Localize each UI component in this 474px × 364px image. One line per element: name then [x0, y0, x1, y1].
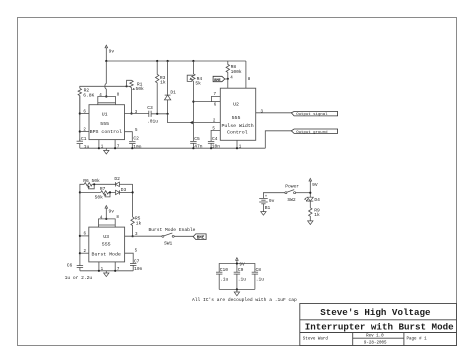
- switch SW1: [149, 227, 196, 246]
- wire U3 pin2 stub: [80, 252, 89, 254]
- svg-text:SW1: SW1: [164, 240, 173, 246]
- ground symbol B1: [261, 212, 266, 216]
- resistor R3 1k: [156, 61, 166, 114]
- capacitor C7 10n: [130, 258, 143, 272]
- svg-text:50k: 50k: [136, 86, 145, 92]
- 9V supply arrow power: [309, 178, 318, 197]
- node U1 pin7 on rail: [114, 147, 116, 149]
- svg-text:Rev 1.0: Rev 1.0: [366, 335, 384, 339]
- node R7 right: [109, 191, 111, 193]
- svg-text:555: 555: [102, 241, 111, 247]
- net tag BME at SW1: [193, 234, 206, 241]
- capacitor C1 1u: [77, 136, 90, 150]
- svg-text:Output ground: Output ground: [296, 130, 328, 135]
- svg-text:5k: 5k: [195, 80, 201, 86]
- node rail-D1: [167, 60, 169, 62]
- ground symbol R9: [308, 221, 313, 225]
- switch SW2 Power: [285, 184, 299, 203]
- capacitor C9 .1u: [234, 267, 247, 289]
- capacitor C10 .1u: [216, 267, 229, 289]
- node R8 pin4: [227, 78, 229, 80]
- net tag BME at U2 pin4: [213, 76, 228, 83]
- wire decoupling top rail: [219, 264, 255, 273]
- node R1 bottom on pin3 wire: [130, 112, 132, 114]
- capacitor C6: [65, 262, 93, 281]
- wire U1 pin2 stub: [80, 131, 89, 133]
- node U1 pin1 on rail: [98, 147, 100, 149]
- wire U1 pin3 stub: [125, 113, 149, 115]
- battery B1 9v: [259, 193, 285, 212]
- wire U3 pin6 stub: [80, 235, 89, 237]
- wire U2 pin3 out: [256, 112, 292, 114]
- wire U2 pin1 drop: [236, 140, 238, 148]
- svg-text:R6 50k: R6 50k: [83, 178, 100, 184]
- svg-text:D3: D3: [121, 187, 127, 193]
- resistor R8 100k: [226, 61, 242, 79]
- node U1 vcc: [105, 95, 107, 97]
- ground symbol U3: [104, 271, 109, 277]
- svg-text:.1u: .1u: [238, 276, 247, 282]
- 9V supply arrow caps: [236, 258, 245, 273]
- svg-text:C6: C6: [67, 262, 73, 268]
- wire decoupling bottom rail: [219, 288, 255, 290]
- resistor R5 1k: [131, 216, 142, 237]
- wire D1 node to U2 pin2: [168, 114, 221, 123]
- diode D2: [114, 176, 132, 186]
- wire U3 pin5 to C7: [125, 253, 134, 263]
- wire U3 pin3 out: [125, 235, 162, 237]
- wire U3 pin7 drop: [114, 262, 116, 271]
- ground rail bottom: [80, 147, 265, 149]
- wire U1 pin5 to C2: [125, 132, 133, 141]
- svg-text:9V: 9V: [312, 182, 318, 188]
- diode D3: [116, 187, 133, 195]
- svg-text:555: 555: [100, 121, 109, 127]
- diode D1: [164, 61, 176, 114]
- svg-text:BME: BME: [197, 237, 205, 241]
- node C4 on rail: [210, 147, 212, 149]
- svg-text:D2: D2: [114, 176, 120, 182]
- node U3 pin7 on rail: [114, 270, 116, 272]
- svg-text:9v: 9v: [109, 209, 115, 215]
- svg-text:B1: B1: [265, 205, 271, 211]
- wire U2 pin5 to C4: [211, 130, 220, 141]
- svg-text:47n: 47n: [194, 144, 203, 150]
- svg-text:Pulse Width: Pulse Width: [221, 123, 253, 129]
- wire output ground: [265, 131, 291, 148]
- svg-text:10n: 10n: [212, 144, 221, 150]
- node C3-R3: [156, 113, 158, 115]
- node U3 pin2 left: [79, 252, 81, 254]
- wire R7 row: [80, 191, 101, 193]
- svg-text:Page # 1: Page # 1: [407, 338, 428, 342]
- svg-text:9V: 9V: [239, 262, 245, 268]
- node C9 top: [236, 262, 238, 264]
- op IC U1 555 BPS control: [89, 94, 125, 140]
- svg-text:1k: 1k: [136, 221, 142, 227]
- wire R4 to pins 6/7 loop: [193, 96, 220, 101]
- capacitor C2 10n: [129, 135, 142, 150]
- op IC U2 555 Pulse Width Control: [220, 88, 255, 140]
- svg-text:1k: 1k: [314, 212, 320, 218]
- node rail-R3: [156, 60, 158, 62]
- svg-text:C2: C2: [133, 135, 139, 141]
- svg-text:BME: BME: [214, 79, 221, 83]
- wire SW2 to LED node: [296, 192, 311, 194]
- node U2 pin1 on rail: [236, 147, 238, 149]
- wire pin8 drop: [245, 61, 247, 88]
- wire pin4 drop: [227, 79, 229, 88]
- svg-text:U3: U3: [103, 234, 109, 240]
- net tag Output ground: [291, 129, 337, 135]
- svg-text:9v: 9v: [269, 198, 275, 204]
- node R5 bottom: [132, 235, 134, 237]
- R4 wiper arrowhead on pin2 wire: [190, 121, 193, 124]
- svg-text:1k: 1k: [160, 79, 166, 85]
- node R7 left: [79, 191, 81, 193]
- potentiometer R7 50k: [95, 186, 116, 201]
- svg-text:BPS control: BPS control: [90, 129, 122, 135]
- svg-text:U2: U2: [233, 101, 239, 107]
- svg-text:C9: C9: [238, 267, 244, 273]
- wire SW1 to BME: [174, 235, 193, 237]
- resistor R9 1k: [309, 208, 320, 221]
- svg-text:R7: R7: [100, 186, 106, 192]
- title block frame: [300, 304, 457, 346]
- svg-text:All IC's are decoupled with a: All IC's are decoupled with a .1uF cap: [192, 297, 297, 303]
- svg-text:10n: 10n: [133, 144, 142, 150]
- svg-text:Steve's High Voltage: Steve's High Voltage: [320, 307, 431, 318]
- 9V supply arrow top: [105, 45, 114, 61]
- svg-text:.01u: .01u: [147, 119, 158, 125]
- node R1 top: [126, 85, 128, 87]
- node R6 right: [93, 183, 95, 185]
- svg-text:C1: C1: [81, 136, 87, 142]
- wire U1 pin6 stub: [80, 113, 89, 115]
- svg-text:Steve Ward: Steve Ward: [303, 337, 329, 342]
- node D3 right: [132, 191, 134, 193]
- ground rail U3: [80, 270, 133, 272]
- potentiometer R6 50k: [83, 178, 115, 189]
- svg-text:1u or 2.2u: 1u or 2.2u: [65, 275, 93, 281]
- wire R2/R1 branch: [80, 86, 127, 88]
- svg-text:C7: C7: [134, 258, 140, 264]
- svg-text:.1u: .1u: [256, 276, 265, 282]
- svg-text:Burst Mode: Burst Mode: [92, 252, 121, 258]
- node C5 on rail: [192, 147, 194, 149]
- svg-text:100k: 100k: [231, 69, 242, 75]
- svg-text:Control: Control: [227, 129, 248, 135]
- svg-text:C3: C3: [147, 105, 153, 111]
- svg-text:1u: 1u: [84, 144, 90, 150]
- svg-text:10n: 10n: [134, 266, 143, 272]
- LED D4: [305, 197, 321, 208]
- wire U3 pin1 drop: [98, 262, 100, 271]
- node C3-D1: [167, 113, 169, 115]
- node R4 wiper junction: [192, 101, 194, 103]
- svg-text:Power: Power: [285, 184, 299, 190]
- node LED top: [309, 192, 311, 194]
- svg-text:Interrupter with Burst Mode: Interrupter with Burst Mode: [305, 321, 454, 332]
- svg-text:U1: U1: [102, 112, 108, 118]
- svg-text:D1: D1: [170, 89, 176, 95]
- svg-text:Output signal: Output signal: [296, 112, 328, 117]
- wire 9V top rail: [106, 60, 246, 62]
- ground symbol caps: [234, 289, 239, 295]
- op IC U3 555 Burst Mode: [89, 216, 125, 262]
- wire U1 pin1 drop: [98, 140, 100, 149]
- wire right vertical to R5: [132, 184, 134, 217]
- svg-text:.1u: .1u: [220, 276, 229, 282]
- svg-text:SW2: SW2: [287, 197, 296, 203]
- node pin2 left: [79, 130, 81, 132]
- svg-text:C4: C4: [212, 136, 218, 142]
- node U3 vcc: [105, 218, 107, 220]
- net tag Output signal: [291, 112, 337, 118]
- svg-text:D4: D4: [314, 197, 320, 203]
- capacitor C4 10n: [208, 136, 220, 150]
- svg-text:9v: 9v: [109, 48, 115, 54]
- capacitor C3 .01u: [147, 105, 168, 125]
- svg-text:6.8K: 6.8K: [83, 93, 94, 99]
- capacitor C5 47n: [190, 123, 203, 150]
- svg-text:Burst Mode Enable: Burst Mode Enable: [149, 227, 196, 233]
- svg-text:R2: R2: [84, 87, 90, 93]
- wire left vertical burst: [80, 184, 84, 265]
- wire 9V drop to U1 with hop: [105, 61, 106, 97]
- wire U1 pin7 drop: [114, 140, 116, 149]
- wire left rail down to C1: [79, 96, 81, 142]
- node C2 on rail: [131, 147, 133, 149]
- node rail-R4: [192, 60, 194, 62]
- capacitor C8 .1u: [252, 267, 265, 289]
- svg-text:50k: 50k: [95, 195, 104, 201]
- 9V supply arrow U3: [105, 206, 114, 219]
- node rail-left: [105, 60, 107, 62]
- svg-text:C5: C5: [194, 136, 200, 142]
- node U3 pin1 on rail: [98, 270, 100, 272]
- node gnd caps: [236, 288, 238, 290]
- potentiometer R1 50k: [127, 80, 144, 113]
- svg-text:C10: C10: [220, 267, 229, 273]
- ground symbol U1: [104, 148, 109, 154]
- node U3 pin6 left: [79, 235, 81, 237]
- svg-text:9-28-2005: 9-28-2005: [364, 341, 387, 345]
- svg-text:C8: C8: [256, 267, 262, 273]
- potentiometer R4 5k: [187, 61, 202, 123]
- svg-text:555: 555: [232, 115, 241, 121]
- node pin6 left: [79, 112, 81, 114]
- resistor R2 6.8K: [78, 87, 94, 113]
